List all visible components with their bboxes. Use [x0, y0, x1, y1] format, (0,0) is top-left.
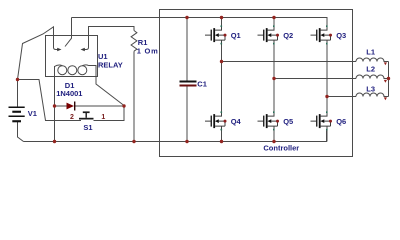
transistor Q6: [311, 111, 347, 130]
wire D1 cathode: [75, 105, 125, 107]
svg-text:Q3: Q3: [336, 31, 346, 40]
node phase C: [325, 95, 328, 98]
L3 arrow: [384, 97, 387, 100]
inductor L2: [356, 75, 389, 79]
svg-text:1 Om: 1 Om: [137, 46, 159, 55]
wire battery top lead: [17, 80, 19, 108]
node gnd-C1: [185, 140, 188, 143]
wire battery to relay contact: [18, 27, 54, 80]
relay left contact: [54, 48, 58, 50]
transistor Q4: [205, 111, 242, 130]
controller box: [160, 10, 353, 157]
wire phase A: [222, 61, 357, 63]
battery V1 plates: [9, 107, 25, 123]
svg-text:1: 1: [101, 114, 105, 121]
transistor Q2: [258, 25, 294, 44]
transistor Q3: [311, 25, 347, 44]
svg-text:C1: C1: [197, 80, 207, 89]
node D1 cathode: [122, 104, 125, 107]
wire column 2 (Q2/Q5): [273, 18, 275, 142]
wire battery to S1: [18, 80, 82, 121]
svg-text:Q5: Q5: [283, 117, 293, 126]
wire top positive bus: [72, 18, 328, 26]
node bus-C1: [185, 16, 188, 19]
wire phase C: [327, 96, 356, 98]
svg-text:L2: L2: [366, 64, 375, 73]
wire relay NC contact to R1: [89, 27, 135, 48]
diode D1: [67, 103, 75, 110]
wire bottom negative bus: [24, 131, 327, 142]
relay coil loops: [58, 66, 67, 75]
L1 arrow: [384, 62, 387, 65]
L2 arrow: [384, 80, 387, 83]
relay box U1: [46, 36, 98, 77]
node D1 anode: [53, 104, 56, 107]
wire phase B: [274, 78, 356, 80]
svg-text:Controller: Controller: [263, 143, 299, 152]
wire D1 anode: [55, 105, 67, 107]
svg-text:RELAY: RELAY: [98, 61, 123, 70]
node gnd-R1: [132, 140, 135, 143]
wire C1 leads: [186, 18, 188, 142]
wire R1 bottom lead: [133, 51, 135, 141]
node phase B: [272, 77, 275, 80]
wire relay coil right lead: [89, 66, 125, 106]
node bus-Q1: [220, 16, 223, 19]
wire relay pole lead: [65, 18, 72, 47]
transistor Q1: [205, 25, 241, 44]
capacitor C1 top plate: [180, 81, 197, 83]
wire star point: [388, 62, 390, 97]
transistor Q5: [258, 111, 294, 130]
relay left contact arrowhead: [57, 48, 61, 51]
wire S1 to node C: [94, 106, 125, 121]
inductor L1: [356, 58, 389, 61]
svg-text:1N4001: 1N4001: [56, 89, 82, 98]
node bus-Q2: [272, 16, 275, 19]
svg-text:V1: V1: [28, 109, 37, 118]
svg-text:L3: L3: [366, 84, 375, 93]
relay right contact: [84, 48, 88, 50]
resistor R1: [131, 31, 137, 52]
node battery plus: [16, 78, 19, 81]
node phase A: [220, 60, 223, 63]
inductor L3: [356, 93, 389, 96]
svg-text:Q6: Q6: [336, 117, 346, 126]
wire column 3 (Q3/Q6): [326, 45, 328, 142]
wire coil left / D1 anode vertical: [54, 66, 56, 142]
svg-text:2: 2: [70, 114, 74, 121]
node gnd-Q5: [272, 140, 275, 143]
wire column 1 (Q1/Q4): [221, 18, 223, 142]
node star L2: [387, 77, 390, 80]
svg-text:S1: S1: [83, 123, 92, 132]
wire battery bottom lead: [18, 122, 24, 142]
node gnd-coil: [53, 140, 56, 143]
svg-text:Q2: Q2: [283, 31, 293, 40]
capacitor C1 bottom plate: [180, 85, 197, 87]
svg-text:Q1: Q1: [231, 31, 241, 40]
node gnd-Q4: [220, 140, 223, 143]
switch S1: [79, 118, 94, 120]
svg-text:L1: L1: [366, 47, 375, 56]
relay right contact arrowhead: [81, 48, 85, 51]
svg-text:Q4: Q4: [231, 117, 242, 126]
